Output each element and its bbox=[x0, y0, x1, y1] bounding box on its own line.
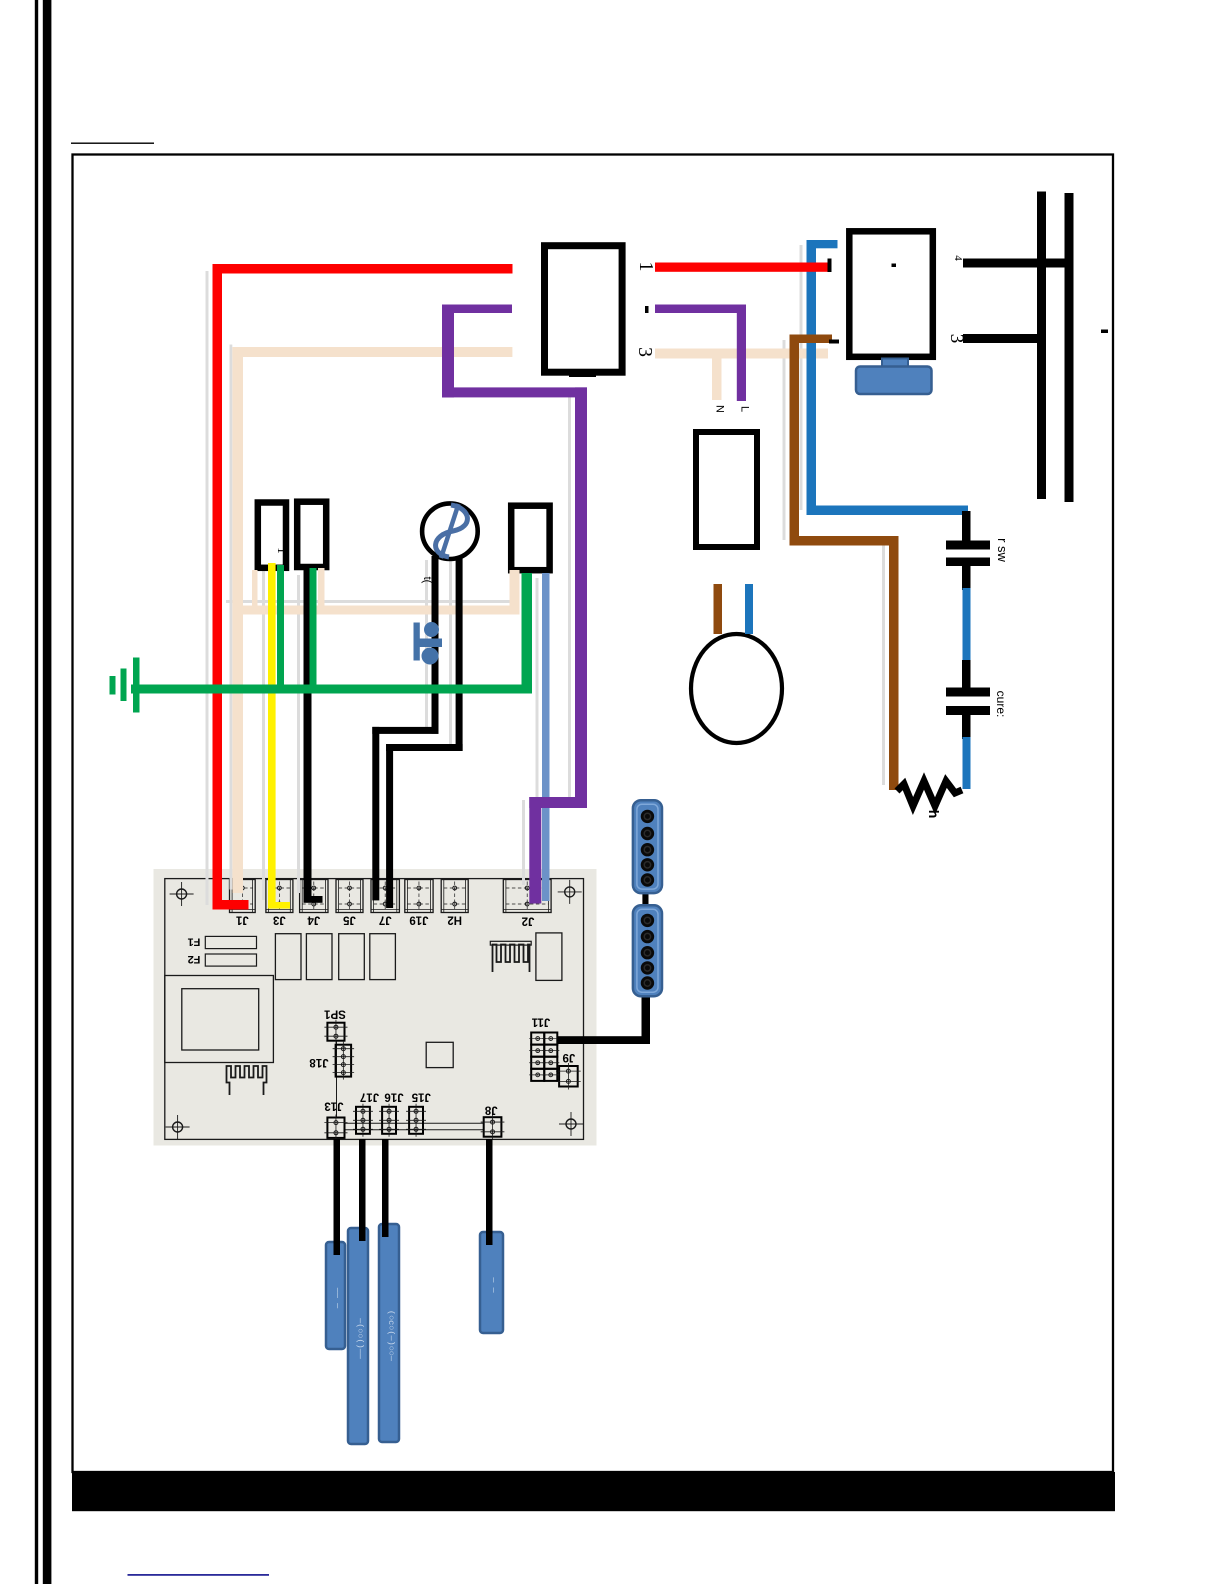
wire harness connector strip 1 bbox=[633, 800, 662, 893]
wire purple right of relay bbox=[655, 305, 742, 314]
svg-text:H2: H2 bbox=[447, 914, 462, 926]
svg-text:L: L bbox=[739, 406, 751, 412]
svg-text:—— —: —— — bbox=[333, 1287, 343, 1309]
wire cream shadow bbox=[230, 345, 233, 890]
svg-text:t(: t( bbox=[421, 577, 433, 584]
transformer outer bbox=[165, 976, 274, 1063]
terminal tick at red wire end bbox=[828, 259, 832, 273]
wire green ground bus bbox=[131, 685, 532, 694]
svg-text:J16: J16 bbox=[384, 1091, 403, 1103]
terminal tick at brown wire end bbox=[829, 340, 839, 344]
svg-text:J7: J7 bbox=[379, 914, 392, 926]
connector H2 bbox=[441, 880, 468, 913]
svg-text:(○c○(—)○○—: (○c○(—)○○— bbox=[386, 1310, 396, 1362]
transformer inner bbox=[182, 989, 259, 1050]
wire black stub above switch 2 bbox=[962, 660, 971, 689]
door switch B bbox=[297, 502, 326, 567]
traces J13 to J8 bbox=[345, 1122, 484, 1124]
wire blue horiz to switch chain bbox=[807, 506, 969, 516]
timer knob body bbox=[856, 367, 932, 395]
wire blue segment to heater bbox=[963, 737, 971, 789]
PCB board outline bbox=[165, 879, 584, 1140]
footer link underline bbox=[128, 1574, 270, 1576]
probe 4 bbox=[480, 1232, 503, 1333]
svg-text:J15: J15 bbox=[411, 1091, 431, 1103]
wire purple vertical into J2 bbox=[529, 797, 541, 904]
svg-text:h: h bbox=[926, 810, 942, 819]
wire cream stub door switch B bbox=[318, 568, 325, 611]
probe 3 bbox=[379, 1224, 399, 1442]
svg-text:—(○○()——: —(○○()—— bbox=[355, 1317, 365, 1360]
float switch D bbox=[511, 506, 549, 571]
fuse F1 bbox=[205, 936, 256, 948]
wire black between plates bbox=[962, 566, 971, 590]
relay R1 on board bbox=[275, 934, 301, 980]
wire red right segment (relay pin 1 to timer) bbox=[655, 263, 830, 272]
svg-text:cure:: cure: bbox=[994, 691, 1008, 718]
svg-text:3: 3 bbox=[634, 347, 656, 357]
heatsink comb right bbox=[493, 945, 530, 973]
wire black between strips bbox=[642, 893, 648, 905]
svg-text:J13: J13 bbox=[324, 1100, 343, 1112]
svg-text:J1: J1 bbox=[235, 914, 248, 926]
wire black motor right to J7 bbox=[456, 556, 463, 751]
wire cream top horizontal (relay pin 3 left) bbox=[232, 347, 512, 357]
wire cream stub door switch A bbox=[252, 570, 258, 611]
svg-text:SP1: SP1 bbox=[324, 1008, 346, 1020]
svg-text:J19: J19 bbox=[409, 914, 428, 926]
svg-text:1: 1 bbox=[275, 547, 290, 554]
svg-text:J8: J8 bbox=[484, 1104, 497, 1116]
heater resistor h bbox=[897, 781, 962, 806]
capacitor blue symbol bbox=[414, 623, 420, 661]
motor M circle bbox=[422, 503, 478, 559]
svg-text:4: 4 bbox=[952, 255, 964, 261]
timer dot bbox=[892, 264, 897, 268]
tick mark right of bars bbox=[1101, 330, 1108, 334]
mount hole TL bbox=[177, 889, 187, 899]
wire cream mid bus bbox=[234, 606, 520, 615]
wire cream right segment (to timer) bbox=[655, 349, 828, 359]
wire blue long vertical bbox=[807, 240, 817, 515]
timer knob neck bbox=[882, 359, 908, 369]
diagram frame bbox=[73, 155, 1114, 1473]
wire black J17 to probe 2 bbox=[359, 1139, 366, 1241]
mount hole TR bbox=[565, 887, 575, 897]
small square mid bbox=[426, 1042, 453, 1067]
connector J11 bbox=[531, 1033, 544, 1045]
connector J19 bbox=[405, 880, 433, 913]
page margin thin rule bbox=[35, 0, 38, 1584]
wire cream stub N bbox=[712, 358, 722, 400]
svg-text:J11: J11 bbox=[531, 1016, 550, 1028]
connector J16 bbox=[382, 1107, 396, 1134]
switch cure plate 1 bbox=[946, 688, 990, 697]
connector J18 bbox=[336, 1045, 352, 1077]
svg-text:J3: J3 bbox=[273, 914, 286, 926]
wire purple vertical stub L bbox=[737, 305, 746, 402]
wire brown horiz mid bbox=[790, 536, 899, 546]
wire black stub above switch rsw bbox=[962, 511, 971, 542]
pin label 2 dash bbox=[645, 306, 649, 313]
wire yellow (door switch A to J3) bbox=[268, 563, 276, 905]
wire steel-blue float switch to J2 bbox=[542, 573, 550, 901]
connector J15 bbox=[409, 1107, 423, 1134]
svg-text:r sw: r sw bbox=[995, 538, 1010, 562]
wire green float switch bbox=[522, 573, 533, 694]
power bar N bbox=[1065, 193, 1074, 502]
wire brown top horizontal (timer pin) bbox=[794, 335, 832, 344]
wire purple vertical 2 (long) bbox=[575, 387, 587, 808]
trace SP1 to J13 bbox=[336, 1040, 338, 1118]
wire black timer pin4 to bars bbox=[963, 259, 1073, 268]
ground symbol bbox=[133, 658, 140, 713]
connector J2 bbox=[503, 880, 551, 913]
wire blue segment between switches bbox=[963, 588, 971, 662]
wire cream vertical from float switch bbox=[510, 570, 520, 614]
svg-text:J18: J18 bbox=[309, 1056, 329, 1068]
timer box bbox=[849, 231, 933, 356]
mount hole BL bbox=[173, 1122, 183, 1132]
wire purple vertical 1 bbox=[442, 305, 454, 398]
svg-text:J9: J9 bbox=[563, 1051, 576, 1063]
wire black timer pin3 to bars bbox=[963, 334, 1041, 343]
footer black band bbox=[72, 1472, 1115, 1511]
motor icon bbox=[436, 505, 468, 557]
wire blue top horizontal (timer pin) bbox=[807, 240, 838, 248]
wire black motor left to J7 bbox=[432, 556, 439, 734]
relay R2 on board bbox=[306, 934, 332, 980]
wire black J8 to probe 4 bbox=[486, 1139, 493, 1245]
wire black J11 to strip bbox=[557, 1036, 650, 1044]
page margin thick rule bbox=[43, 0, 52, 1584]
connector SP1 bbox=[327, 1023, 344, 1041]
svg-text:J4: J4 bbox=[307, 914, 320, 926]
svg-text:F1: F1 bbox=[188, 936, 201, 948]
wire brown vertical 2 (to heater) bbox=[889, 536, 899, 790]
svg-text:— —: — — bbox=[489, 1276, 499, 1293]
probe 1 bbox=[326, 1242, 345, 1349]
fuse F2 bbox=[205, 954, 256, 966]
connector J17 bbox=[356, 1107, 370, 1134]
wire blue stub to pump oval bbox=[745, 584, 753, 634]
connector J13 bbox=[327, 1118, 344, 1138]
wire cream vertical (to J1) bbox=[232, 347, 243, 893]
switch cure plate 2 bbox=[946, 706, 990, 715]
svg-text:N: N bbox=[714, 405, 726, 413]
connector J5 bbox=[336, 880, 363, 913]
wire purple horiz 3 bbox=[529, 797, 587, 808]
connector J3 bbox=[266, 880, 293, 913]
probe 2 bbox=[348, 1228, 368, 1444]
wire brown stub to pump oval bbox=[714, 584, 723, 634]
heatsink comb bottom bbox=[227, 1066, 267, 1095]
wire red top horizontal (left of relay) bbox=[213, 264, 513, 274]
power bar L1 bbox=[1037, 192, 1046, 500]
switch rsw plate 1 bbox=[946, 541, 990, 550]
svg-text:J2: J2 bbox=[522, 915, 535, 927]
wire black door switch B to J4 bbox=[304, 568, 312, 897]
svg-text:F2: F2 bbox=[188, 953, 201, 965]
relay R4 on board bbox=[370, 934, 396, 980]
wire green door switch A bbox=[277, 565, 284, 688]
svg-text:1: 1 bbox=[635, 262, 657, 272]
connector J1 bbox=[230, 880, 256, 913]
wire brown vertical 1 bbox=[790, 335, 800, 546]
connector J7 bbox=[371, 880, 399, 913]
relay R3 on board bbox=[339, 934, 365, 980]
svg-text:J17: J17 bbox=[360, 1091, 379, 1103]
wire red bottom elbow into J1 bbox=[213, 900, 249, 910]
mount hole BR bbox=[566, 1119, 576, 1129]
connector J9 bbox=[559, 1066, 578, 1087]
relay K1 box bbox=[545, 246, 623, 373]
header rule bbox=[71, 143, 154, 144]
wire shadows bbox=[206, 271, 209, 905]
wire red vertical (to J1) bbox=[213, 264, 223, 910]
wire black J13 to probe 1 bbox=[334, 1139, 341, 1255]
wire harness connector strip 2 bbox=[633, 905, 662, 996]
PCB board fill bbox=[154, 869, 597, 1146]
wire purple horiz left of relay bbox=[442, 305, 512, 314]
connector J4 bbox=[300, 880, 328, 913]
IC rect right bbox=[536, 933, 562, 981]
wire green door switch B bbox=[310, 568, 317, 688]
door switch box C bbox=[696, 432, 757, 547]
wire black J16 to probe 3 bbox=[382, 1139, 389, 1237]
wire black stub below switch 2 bbox=[962, 715, 971, 739]
pump oval bbox=[691, 634, 782, 743]
switch rsw plate 2 bbox=[946, 558, 990, 567]
wire purple horiz 2 bbox=[442, 387, 587, 397]
door switch A bbox=[258, 503, 286, 568]
svg-text:J5: J5 bbox=[343, 914, 356, 926]
connector J8 bbox=[484, 1117, 502, 1137]
relay K1 bottom tab bbox=[569, 370, 596, 378]
